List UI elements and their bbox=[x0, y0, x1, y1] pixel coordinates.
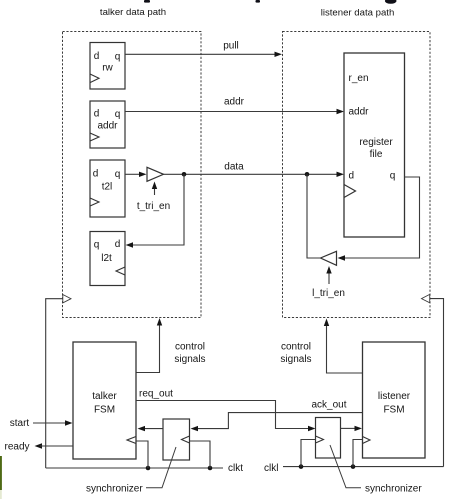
wire data to l2t d bbox=[126, 174, 185, 247]
wire clkl tap to listener FSM clock bbox=[353, 440, 363, 467]
synchronizer FF right bbox=[316, 418, 341, 459]
svg-text:FSM: FSM bbox=[383, 405, 404, 416]
svg-text:addr: addr bbox=[224, 97, 245, 108]
wire pull bbox=[125, 41, 282, 58]
svg-text:q: q bbox=[115, 109, 121, 120]
junction dot clkl-FSM bbox=[351, 464, 356, 469]
svg-text:FSM: FSM bbox=[94, 405, 115, 416]
svg-text:clkt: clkt bbox=[228, 463, 243, 474]
title: talker data path bbox=[100, 7, 166, 18]
svg-text:listener data path: listener data path bbox=[321, 8, 395, 19]
svg-text:t2l: t2l bbox=[102, 182, 113, 193]
wire req_out bbox=[136, 389, 316, 432]
svg-text:d: d bbox=[349, 171, 355, 182]
tri-state buffer l_tri bbox=[321, 251, 337, 265]
wire l_tri output to data bbox=[307, 174, 321, 258]
junction dot data-l2t bbox=[182, 172, 187, 177]
flip-flop t2l bbox=[90, 160, 125, 217]
register file U-regfile bbox=[344, 53, 405, 237]
listener data path dashed box bbox=[283, 32, 431, 318]
talker data path dashed box bbox=[63, 32, 202, 318]
svg-text:data: data bbox=[224, 162, 244, 173]
svg-text:clkl: clkl bbox=[264, 463, 278, 474]
svg-text:q: q bbox=[115, 52, 121, 63]
label synchronizer left bbox=[86, 447, 176, 495]
svg-text:ready: ready bbox=[4, 442, 29, 453]
svg-text:addr: addr bbox=[349, 107, 370, 118]
wire start bbox=[10, 418, 73, 429]
svg-text:synchronizer: synchronizer bbox=[86, 484, 143, 495]
svg-text:rw: rw bbox=[102, 63, 113, 74]
svg-text:q: q bbox=[390, 171, 396, 182]
title: listener data path bbox=[321, 8, 395, 19]
talker FSM bbox=[73, 342, 136, 459]
wire clkl tap to right sync clock bbox=[301, 440, 316, 467]
wire clkt riser to talker data path bbox=[46, 295, 71, 469]
svg-text:q: q bbox=[94, 240, 100, 251]
svg-text:d: d bbox=[94, 51, 100, 62]
wire data bbox=[164, 162, 345, 178]
l_tri_en enable arrow bbox=[312, 266, 345, 299]
svg-text:file: file bbox=[370, 149, 383, 160]
svg-text:req_out: req_out bbox=[139, 389, 173, 400]
svg-text:talker: talker bbox=[92, 391, 117, 402]
svg-text:synchronizer: synchronizer bbox=[365, 484, 422, 495]
wire control signals talker bbox=[136, 318, 206, 373]
svg-text:d: d bbox=[94, 109, 100, 120]
wire register q feedback bbox=[338, 177, 420, 261]
svg-text:t_tri_en: t_tri_en bbox=[137, 201, 170, 212]
wire right sync to listener FSM bbox=[341, 426, 363, 431]
cut-off heading fragment 3 bbox=[385, 0, 397, 4]
svg-text:addr: addr bbox=[97, 121, 118, 132]
wire ack_out bbox=[191, 400, 363, 432]
svg-text:l_tri_en: l_tri_en bbox=[312, 288, 345, 299]
synchronizer FF left bbox=[163, 419, 190, 460]
wire clkl bbox=[264, 463, 444, 474]
junction dot clkt-FSM bbox=[146, 466, 151, 471]
wire control signals listener bbox=[280, 319, 362, 374]
wire clkl riser to listener data path bbox=[422, 294, 444, 466]
svg-text:signals: signals bbox=[280, 354, 311, 365]
wire ready bbox=[4, 442, 73, 453]
svg-text:talker data path: talker data path bbox=[100, 7, 166, 18]
flip-flop l2t bbox=[90, 232, 125, 286]
flip-flop rw bbox=[90, 43, 125, 90]
svg-text:listener: listener bbox=[378, 391, 411, 402]
wire addr bbox=[125, 97, 344, 115]
junction dot clkl-sync bbox=[299, 464, 304, 469]
cut-off heading fragment 1 bbox=[144, 0, 150, 3]
green edge artifact bbox=[0, 456, 2, 499]
svg-text:pull: pull bbox=[223, 41, 239, 52]
wire clkt bbox=[46, 463, 244, 474]
junction dot clkt-sync bbox=[208, 466, 213, 471]
svg-text:control: control bbox=[281, 342, 311, 353]
svg-text:r_en: r_en bbox=[349, 73, 369, 84]
svg-text:l2t: l2t bbox=[101, 253, 112, 264]
cut-off heading fragment 2 bbox=[256, 0, 261, 3]
svg-text:control: control bbox=[175, 342, 205, 353]
svg-text:q: q bbox=[115, 169, 121, 180]
wire t2l q to buffer bbox=[125, 172, 147, 177]
listener FSM bbox=[363, 342, 426, 458]
svg-text:signals: signals bbox=[174, 354, 205, 365]
svg-text:start: start bbox=[10, 418, 30, 429]
flip-flop addr bbox=[90, 101, 125, 148]
wire left sync to talker FSM bbox=[138, 426, 164, 431]
label synchronizer right bbox=[330, 445, 422, 495]
wire clkt tap to left sync clock bbox=[190, 441, 210, 468]
svg-text:d: d bbox=[115, 239, 121, 250]
junction dot data-ltri bbox=[305, 172, 310, 177]
svg-text:d: d bbox=[93, 169, 99, 180]
svg-text:ack_out: ack_out bbox=[311, 400, 346, 411]
svg-text:register: register bbox=[359, 137, 393, 148]
wire clkt tap to talker FSM clock bbox=[137, 441, 149, 468]
tri-state buffer t_tri bbox=[147, 167, 164, 181]
t_tri_en enable arrow bbox=[137, 182, 170, 213]
